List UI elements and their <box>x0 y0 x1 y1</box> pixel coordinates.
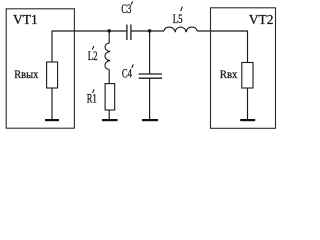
resistor R1' <box>105 84 115 110</box>
wire (Rвых to ground) <box>51 88 53 119</box>
wire (L2' to R1') <box>108 70 110 84</box>
svg-text:R1: R1 <box>87 92 97 106</box>
prime mark of C3' <box>131 2 132 5</box>
wire (Rвх to ground) <box>247 88 249 119</box>
wire (VT1 output to node A) <box>52 31 127 62</box>
ground (VT1) <box>45 119 59 121</box>
wire (node A down to L2') <box>108 31 110 43</box>
ground (C4') <box>142 119 158 121</box>
transistor stage VT2 box <box>211 8 276 129</box>
wire (R1' to ground) <box>108 110 110 119</box>
ground (R1') <box>102 119 118 121</box>
svg-text:C4: C4 <box>122 67 133 81</box>
prime mark of L2' <box>92 46 93 50</box>
svg-text:L5: L5 <box>173 12 183 26</box>
capacitor C3' <box>127 25 131 41</box>
svg-text:Rвх: Rвх <box>220 67 238 81</box>
node B (junction of C4' branch) <box>148 29 152 33</box>
inductor L5' <box>164 27 197 32</box>
node A (junction of L2' branch) <box>107 29 111 33</box>
resistor Rвх <box>242 63 253 89</box>
wire (node B down to C4') <box>149 31 151 74</box>
wire (C3' to node B and on to L5') <box>131 30 164 32</box>
capacitor C4' <box>139 74 162 78</box>
inductor L2' <box>105 43 110 69</box>
transistor stage VT1 box <box>6 9 74 128</box>
prime mark of L5' <box>181 7 183 11</box>
svg-text:VT2: VT2 <box>249 12 274 27</box>
svg-text:L2: L2 <box>88 49 98 63</box>
prime mark of C4' <box>132 64 134 68</box>
svg-text:VT1: VT1 <box>13 12 38 27</box>
prime mark of R1' <box>93 89 94 93</box>
svg-text:C3: C3 <box>121 2 131 16</box>
svg-text:Rвых: Rвых <box>14 67 38 81</box>
wire (L5' into VT2 to Rвх) <box>197 31 248 63</box>
resistor Rвых <box>47 62 58 88</box>
wire (C4' to ground) <box>149 78 151 119</box>
ground (VT2) <box>240 119 255 121</box>
